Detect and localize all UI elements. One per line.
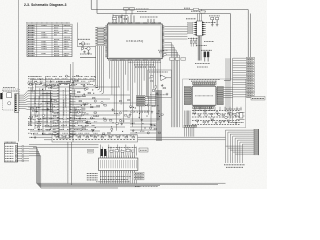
title: 2-3. Schematic Diagram-3: [24, 3, 67, 7]
node: net label flags left of U101: [95, 27, 105, 46]
wire: CN103 fan into jungle: [20, 91, 53, 110]
wire: CN101 bottom comb to bus: [96, 172, 158, 186]
wire: U101 bottom pin drops into component jungle: [110, 61, 161, 131]
capacitor C701 group above U101: [112, 7, 158, 22]
U101 bottom pin number labels: [110, 60, 161, 62]
connector CN602 bottom right: [254, 129, 259, 155]
node: bus net labels: [184, 8, 206, 13]
connector CN103 servo input section dashed box: [0, 88, 19, 113]
capacitor C603 and crystal X601 right of CN601: [206, 16, 220, 26]
wire: verticals joining flags to U601 right labels: [223, 58, 244, 122]
op-amp U101 CXD1135Q main DSP QFP: [106, 23, 163, 60]
wire: left vertical border line: [17, 0, 19, 142]
wire: CN602 bus stubs and labels: [224, 157, 245, 168]
node: net flags left of vertical bus: [137, 96, 157, 107]
resistor R604 pair dark blocks below cluster: [201, 50, 212, 57]
svg-text:2-3. Schematic Diagram-3: 2-3. Schematic Diagram-3: [24, 3, 67, 7]
wire: vertical bus from analog block to bottom band: [130, 90, 162, 141]
op-amp IC201 servo driver tall SDIP: [56, 82, 71, 138]
wire: cluster verticals descending: [195, 36, 210, 67]
node: flag labels row near analog box: [170, 58, 186, 61]
wire: flag column drops into jungle: [94, 46, 104, 94]
wire: risers from CN601 cluster to top bus: [198, 9, 202, 21]
resistor R161 row between U101 and analog box: [134, 65, 155, 68]
node: board name text: [130, 110, 149, 114]
wire: long horizontal nets to left: [29, 137, 226, 147]
op-amp IC151 analog low-pass filter block: [148, 70, 172, 97]
wire: jungle drops to bottom bus: [68, 142, 71, 185]
capacitor C152 C153 right of U101: [158, 50, 168, 55]
resistor R611 group below U601: [192, 107, 241, 125]
op-amp U601 system control QFP: [191, 85, 217, 106]
wire: top bus A from top edge looping right and down to right flags: [91, 0, 248, 96]
wire: outline box around U601 section: [183, 79, 246, 128]
node: connector label box: [139, 148, 148, 152]
wire: CN101 top pins rising to jungle: [100, 145, 136, 156]
wire: CN602 comb to vertical bus: [226, 130, 255, 156]
node: dense discrete component area (jungle): [27, 75, 163, 140]
wire: CN102 fan to bottom bus: [29, 147, 226, 188]
connector CN601 vertical header in upper right cluster: [194, 21, 206, 36]
wire: top bus B from top edge looping right and down: [97, 0, 231, 81]
node: labels left of CN601: [188, 22, 193, 34]
node: right side net flag column: [233, 57, 255, 97]
node: CN101 left pin name labels: [87, 174, 98, 180]
node: misc text in upper right cluster: [186, 19, 214, 47]
node: pin label boxes around U601: [184, 79, 223, 136]
wire: long verticals through jungle: [71, 62, 74, 142]
svg-text:CXD1135Q: CXD1135Q: [126, 39, 144, 43]
transistor Q103 near table: [78, 23, 96, 54]
table: parts list with caption: [26, 23, 72, 57]
wire: U101 right pins to upper right cluster: [164, 14, 250, 128]
svg-text:CX13508: CX13508: [130, 110, 149, 114]
resistor block R210 right of IC201: [76, 92, 97, 124]
capacitor C141 C142 black bars above CN101: [88, 148, 137, 156]
node: flag label box right mid: [251, 96, 265, 100]
wire: outline around bottom servo band: [52, 135, 138, 142]
connector CN101 wide flat cable connector: [99, 157, 138, 172]
wire: IC201 pin stubs: [42, 86, 86, 135]
transistor Q104 and Q105 below flags: [78, 39, 96, 57]
connector CN102 block with pin table bottom left: [4, 142, 29, 162]
